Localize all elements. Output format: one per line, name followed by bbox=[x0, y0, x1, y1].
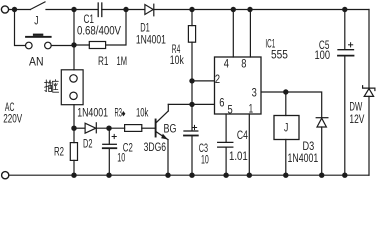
svg-text:C1: C1 bbox=[84, 14, 95, 26]
node emitter bottom bbox=[165, 173, 170, 178]
diode D2 bbox=[85, 123, 96, 133]
wire AN branch down from rail bbox=[15, 10, 26, 46]
wire top rail: D1 to right corner bbox=[154, 9, 369, 11]
capacitor C5 bbox=[338, 10, 354, 176]
svg-text:C3: C3 bbox=[199, 143, 208, 155]
R3 arrow marker bbox=[122, 111, 126, 116]
svg-text:10k: 10k bbox=[170, 55, 184, 67]
svg-text:8: 8 bbox=[241, 59, 246, 71]
wire pin8 to rail bbox=[249, 10, 251, 58]
relay coil J bbox=[274, 92, 299, 175]
wire AN to node B bbox=[51, 45, 74, 47]
resistor R4 bbox=[188, 26, 195, 43]
svg-text:10: 10 bbox=[117, 152, 125, 164]
svg-text:5: 5 bbox=[228, 104, 233, 116]
node pin1 bottom bbox=[247, 173, 252, 178]
wire R4 branch / node E vertical bbox=[191, 10, 193, 26]
node A bbox=[71, 7, 76, 12]
wire top rail: terminal to switch bbox=[9, 9, 31, 11]
AC input terminal top bbox=[1, 6, 8, 13]
svg-text:1N4001: 1N4001 bbox=[288, 153, 319, 165]
wire top rail: C1 to D1 bbox=[102, 9, 145, 11]
resistor R1 bbox=[74, 10, 126, 49]
svg-text:IC1: IC1 bbox=[265, 39, 275, 51]
wire node C to D2 bbox=[74, 127, 85, 129]
label 插座 (Chinese: socket) hand-drawn bbox=[45, 80, 59, 93]
node R4 top bbox=[189, 7, 194, 12]
svg-text:12V: 12V bbox=[349, 114, 364, 126]
svg-text:BG: BG bbox=[164, 124, 177, 136]
node C5 top bbox=[342, 7, 347, 12]
capacitor C4 bbox=[218, 142, 233, 175]
switch J blade bbox=[30, 2, 45, 10]
C3 plus sign bbox=[192, 125, 196, 129]
svg-text:3DG6: 3DG6 bbox=[144, 142, 167, 154]
C5 plus sign bbox=[349, 43, 353, 47]
node pin4 rail bbox=[231, 7, 236, 12]
svg-text:1N4001: 1N4001 bbox=[136, 35, 166, 47]
zener diode DW bbox=[363, 86, 375, 176]
wire right edge down bbox=[368, 10, 370, 89]
node B bbox=[71, 42, 76, 47]
wire node A vertical down to socket bbox=[73, 10, 75, 70]
node pin2 bbox=[189, 78, 194, 83]
svg-text:3: 3 bbox=[252, 87, 257, 99]
node D3 bottom bbox=[319, 173, 324, 178]
svg-text:R2: R2 bbox=[54, 147, 64, 159]
node pin3 out bbox=[283, 89, 288, 94]
node top-terminal branch bbox=[12, 7, 17, 12]
svg-text:10k: 10k bbox=[136, 108, 149, 120]
diode D1 bbox=[145, 4, 154, 16]
svg-text:DW: DW bbox=[349, 102, 362, 114]
node C5 bottom bbox=[342, 173, 347, 178]
wire pin2 line bbox=[192, 80, 214, 82]
node C4 bottom bbox=[223, 173, 228, 178]
wire collector node to pin6 line bbox=[168, 103, 214, 105]
node pin6 bbox=[189, 102, 194, 107]
wire pin1 down bbox=[248, 114, 250, 175]
resistor R3 bbox=[125, 125, 155, 132]
node R2 bottom bbox=[71, 173, 76, 178]
AC input terminal bottom bbox=[2, 172, 9, 179]
svg-text:C4: C4 bbox=[237, 130, 248, 142]
svg-text:D2: D2 bbox=[83, 139, 93, 151]
wire socket bottom to node C bbox=[73, 105, 75, 129]
svg-text:R1: R1 bbox=[98, 56, 109, 68]
transistor BG bbox=[156, 104, 169, 175]
svg-text:R3: R3 bbox=[115, 108, 123, 120]
IC 555 box bbox=[215, 57, 262, 114]
wire pin3 output line bbox=[261, 92, 321, 118]
svg-text:6: 6 bbox=[219, 98, 224, 110]
wire D2 to node D bbox=[96, 127, 124, 129]
node D bbox=[106, 126, 111, 131]
svg-text:AN: AN bbox=[29, 57, 44, 69]
capacitor C3 bbox=[184, 131, 198, 175]
pushbutton AN bbox=[25, 34, 51, 49]
wire top rail: switch to node A bbox=[46, 9, 98, 11]
C2 plus sign bbox=[112, 134, 116, 138]
svg-text:D3: D3 bbox=[303, 141, 315, 153]
svg-text:1M: 1M bbox=[117, 56, 128, 68]
svg-text:100: 100 bbox=[315, 50, 331, 62]
svg-text:0.68/400V: 0.68/400V bbox=[77, 26, 121, 38]
wire pin5 down bbox=[225, 114, 227, 142]
resistor R2 bbox=[70, 128, 77, 175]
node C2 bottom bbox=[106, 173, 111, 178]
svg-text:D1: D1 bbox=[140, 23, 150, 35]
node J bottom bbox=[283, 173, 288, 178]
svg-text:1: 1 bbox=[249, 104, 254, 116]
node pin8 rail bbox=[247, 7, 252, 12]
diode D3 bbox=[316, 118, 328, 176]
svg-text:1N4001: 1N4001 bbox=[77, 108, 108, 120]
socket box bbox=[61, 70, 83, 105]
svg-text:555: 555 bbox=[271, 50, 288, 62]
svg-text:220V: 220V bbox=[3, 113, 22, 125]
bottom rail wire bbox=[9, 174, 369, 176]
svg-text:1.01: 1.01 bbox=[229, 151, 248, 163]
svg-text:J: J bbox=[34, 15, 38, 27]
node C3 bottom bbox=[189, 173, 194, 178]
capacitor C2 bbox=[103, 128, 117, 175]
capacitor C1 bbox=[98, 3, 102, 17]
node C1 right bbox=[123, 7, 128, 12]
svg-text:J: J bbox=[284, 122, 288, 134]
wire node E down to C3 bbox=[191, 104, 193, 130]
svg-text:4: 4 bbox=[224, 59, 230, 71]
wire pin4 to rail bbox=[232, 10, 234, 58]
node C bbox=[71, 126, 76, 131]
svg-text:10: 10 bbox=[201, 154, 209, 166]
svg-text:2: 2 bbox=[215, 74, 220, 86]
